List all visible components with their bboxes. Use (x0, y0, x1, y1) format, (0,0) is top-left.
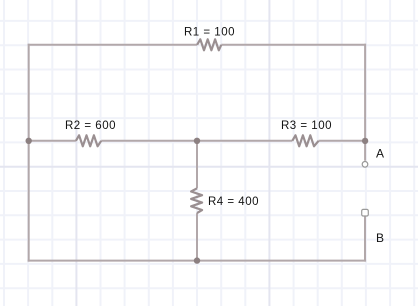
resistor R4 (191, 188, 202, 213)
node: junction dot right middle (362, 138, 368, 144)
node: junction dot bottom center (194, 257, 200, 263)
wire: right vertical (top corner to terminal A) (364, 44, 366, 161)
wire: top horizontal left segment (28, 44, 197, 46)
svg-text:R1 = 100: R1 = 100 (184, 26, 235, 38)
svg-text:R2 = 600: R2 = 600 (65, 120, 116, 132)
wire: middle vertical, center junction to R4 (196, 141, 198, 189)
wire: bottom horizontal (28, 260, 366, 262)
wire: top horizontal right segment (221, 44, 366, 46)
svg-text:R3 = 100: R3 = 100 (281, 120, 332, 132)
wire: middle horizontal, R2 to center junction (101, 140, 197, 142)
terminal B (open square) (362, 209, 369, 216)
node: junction dot center middle (194, 138, 200, 144)
resistor R2 (76, 135, 101, 146)
svg-text:B: B (376, 231, 385, 245)
node: junction dot left middle (26, 138, 32, 144)
terminal A (open circle) (362, 162, 368, 168)
resistor R3 (292, 135, 318, 146)
svg-text:R4 = 400: R4 = 400 (208, 196, 259, 208)
wire: middle horizontal, left junction to R2 (29, 140, 76, 142)
wire: middle horizontal, R3 to right junction (319, 140, 366, 142)
wire: left vertical (28, 44, 30, 262)
wire: terminal B vertical (364, 216, 366, 262)
wire: middle horizontal, center junction to R3 (197, 140, 292, 142)
wire: middle vertical, R4 to bottom junction (196, 213, 198, 261)
resistor R1 (197, 39, 221, 50)
svg-text:A: A (376, 146, 385, 160)
